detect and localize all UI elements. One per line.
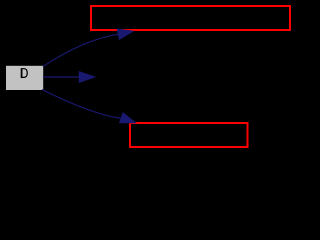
arrowhead (79, 72, 95, 83)
node bottom (red box) (130, 123, 248, 147)
arrowhead (117, 29, 133, 39)
edge D to middle (hidden) node (43, 72, 95, 83)
node D (6, 66, 43, 90)
wire curve (43, 34, 118, 66)
wire curve (42, 90, 121, 119)
edge D to bottom node (42, 90, 136, 123)
arrowhead (120, 113, 136, 123)
edge D to top node (43, 29, 133, 66)
node top (red box) (91, 6, 290, 30)
wire line (43, 76, 80, 78)
